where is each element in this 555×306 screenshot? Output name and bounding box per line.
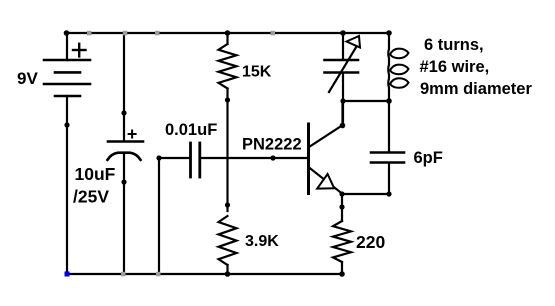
wire variable cap bottom lead (342, 73, 344, 126)
wire emitter to 6pF (342, 193, 389, 195)
inductor L1 coil loops (390, 49, 409, 88)
wire battery top lead (66, 33, 68, 60)
battery B1 9V (44, 60, 90, 96)
node base wire (270, 155, 275, 160)
node varcap top (340, 30, 346, 36)
svg-text:9V: 9V (17, 69, 38, 88)
node emitter (339, 191, 344, 196)
variable cap arrow shaft (329, 47, 357, 93)
resistor R1 15K (219, 44, 237, 89)
svg-text:PN2222: PN2222 (242, 136, 302, 154)
resistor R3 220 (333, 221, 351, 262)
wire battery bottom lead (66, 96, 68, 274)
wire 10uF top lead (123, 33, 125, 141)
node 3.9K bottom rail (225, 271, 231, 277)
variable cap arrow head (347, 36, 361, 48)
wire 3.9K bottom lead (226, 265, 228, 274)
node collector (340, 123, 346, 129)
capacitor C1 plus sign (129, 131, 136, 138)
transistor Q1 base bar (307, 124, 310, 194)
wire emitter node column (341, 194, 343, 222)
node 15K bottom (225, 97, 230, 102)
wire 0.01uF left lead (159, 157, 189, 159)
svg-text:9mm diameter: 9mm diameter (420, 80, 532, 98)
svg-text:220: 220 (356, 232, 385, 252)
wire tank junction (343, 100, 389, 102)
node 0.01uF left (156, 155, 161, 160)
svg-text:3.9K: 3.9K (245, 233, 279, 250)
node battery column (64, 122, 69, 127)
node battery top (64, 30, 70, 36)
wire 220 bottom lead (341, 262, 343, 274)
capacitor C3 variable (325, 60, 359, 73)
node inductor top (386, 30, 392, 36)
wire 0.01uF left column (158, 158, 160, 274)
wire variable cap top lead (342, 33, 344, 60)
wire collector column (341, 101, 343, 126)
resistor R2 3.9K (219, 216, 237, 265)
wire 10uF bottom lead (123, 153, 125, 274)
node 6pF bottom (386, 191, 391, 196)
editor handles gray (87, 31, 275, 276)
svg-text:15K: 15K (242, 64, 272, 81)
capacitor C4 6pF (371, 153, 404, 163)
node tank right (386, 98, 392, 104)
node 220 bottom rail (339, 271, 345, 277)
node 10uF lower (121, 179, 126, 184)
wire 6pF top lead (388, 101, 390, 152)
editor handle blue endpoint (65, 272, 70, 277)
svg-text:6 turns,: 6 turns, (424, 36, 484, 54)
wire base wire (201, 157, 308, 159)
node 3.9K top (225, 202, 230, 207)
svg-text:6pF: 6pF (414, 149, 443, 167)
svg-text:0.01uF: 0.01uF (165, 121, 217, 139)
transistor Q1 emitter arrow (317, 174, 334, 189)
svg-text:10uF: 10uF (75, 164, 116, 184)
inductor L1 vertical line (387, 33, 390, 101)
node 220 top (339, 204, 344, 209)
transistor Q1 emitter lead (309, 168, 342, 194)
svg-text:#16 wire,: #16 wire, (420, 58, 490, 76)
wire bottom rail (66, 273, 342, 275)
svg-text:/25V: /25V (73, 187, 109, 207)
wire 15K bottom lead / base column (226, 89, 228, 212)
node 15K top (225, 30, 231, 36)
wire 15K top lead (226, 33, 228, 44)
transistor Q1 collector lead (309, 126, 342, 148)
capacitor C1 10uF/25V (108, 142, 144, 160)
node 10uF upper (121, 110, 126, 115)
wire top rail (66, 32, 389, 34)
wire 6pF bottom lead (388, 163, 390, 194)
capacitor C2 0.01uF (191, 143, 200, 177)
battery plus sign (73, 44, 86, 57)
node tank left (340, 98, 345, 103)
